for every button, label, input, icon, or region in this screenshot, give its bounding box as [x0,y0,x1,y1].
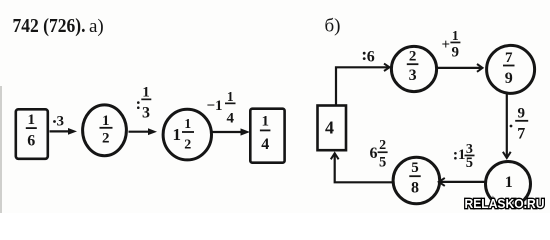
svg-text:1: 1 [227,89,234,104]
label :6 [363,49,375,66]
svg-text:9: 9 [505,70,513,87]
wire arrow circle 1 1/2 to box 1/4 [212,128,250,135]
fraction 1/2 [100,113,113,147]
circle 2/3 [391,46,436,91]
label ·9/7 [510,106,529,143]
label +1/9 [442,28,461,61]
watermark RELASKO.RU [465,196,545,211]
wire arrow box 1/6 to circle 1/2 [50,128,78,135]
svg-text:8: 8 [411,180,419,197]
wire arrow circle 1 to circle 5/8 [439,178,485,186]
svg-text:1: 1 [458,147,466,163]
wire arrow circle 1/2 to circle 1 1/2 [129,128,158,135]
svg-text:4: 4 [261,136,269,153]
number 4 [325,118,334,138]
fraction 7/9 [503,50,515,87]
svg-text:3: 3 [142,105,150,122]
svg-text:6: 6 [367,49,375,66]
svg-text:1: 1 [452,28,459,43]
svg-text:3: 3 [409,67,417,84]
svg-text:1: 1 [261,114,269,130]
svg-text:1: 1 [184,116,191,131]
svg-text:6: 6 [370,145,378,162]
svg-text:2: 2 [184,138,191,153]
label : 1/3 [137,85,151,122]
svg-text:2: 2 [379,138,386,153]
svg-text:5: 5 [466,155,473,171]
svg-text:9: 9 [452,45,460,61]
fraction 1/4 [260,114,271,154]
label -1 1/4 [207,89,236,126]
label b) [325,16,341,37]
svg-text:1: 1 [173,125,182,144]
svg-text:6: 6 [27,133,35,150]
svg-text:4: 4 [227,111,235,127]
title 742 (726). a) [13,15,104,37]
svg-text:−1: −1 [207,98,223,114]
wire arrow circle 2/3 to circle 7/9 [437,64,483,72]
svg-text:4: 4 [325,118,334,138]
svg-text:5: 5 [411,160,419,176]
svg-text:1: 1 [505,174,513,191]
fraction 2/3 [407,49,419,85]
svg-text:2: 2 [102,130,110,146]
svg-text:3: 3 [57,114,65,130]
box 4 [318,106,347,151]
svg-text:5: 5 [379,155,386,171]
svg-text:+: + [442,37,451,53]
svg-text:б): б) [325,16,341,37]
wire circle 5/8 left then up into box 4 with arrow [331,153,394,182]
label :1 3/5 [454,142,474,171]
left scan edge shading [0,86,2,213]
svg-text:1: 1 [102,113,110,129]
mixed number 1 1/2 [173,116,195,153]
svg-text:742 (726).: 742 (726). [13,15,86,37]
circle 1 1/2 [163,109,211,160]
box 1/6 [16,109,48,159]
fraction 1/6 [26,112,37,150]
circle 1/2 [83,105,127,156]
svg-text:a): a) [89,16,104,37]
circle 1 [486,162,531,207]
svg-text:7: 7 [517,126,525,143]
fraction 5/8 [409,160,420,197]
svg-text:9: 9 [518,106,526,122]
number 1 [505,174,513,191]
circle 7/9 [487,45,535,93]
svg-text:2: 2 [409,49,417,65]
label 6 2/5 [370,138,388,171]
svg-text:1: 1 [28,112,36,128]
circle 5/8 [393,157,440,204]
wire box 4 up and right to circle 2/3 with arrow [336,64,390,105]
svg-text:RELASKO.RU: RELASKO.RU [465,196,545,211]
svg-text:1: 1 [142,85,150,101]
label ·3 [53,114,64,130]
wire arrow circle 7/9 down to circle 1 [503,94,511,158]
svg-text:7: 7 [505,50,513,66]
box 1/4 [250,109,284,163]
